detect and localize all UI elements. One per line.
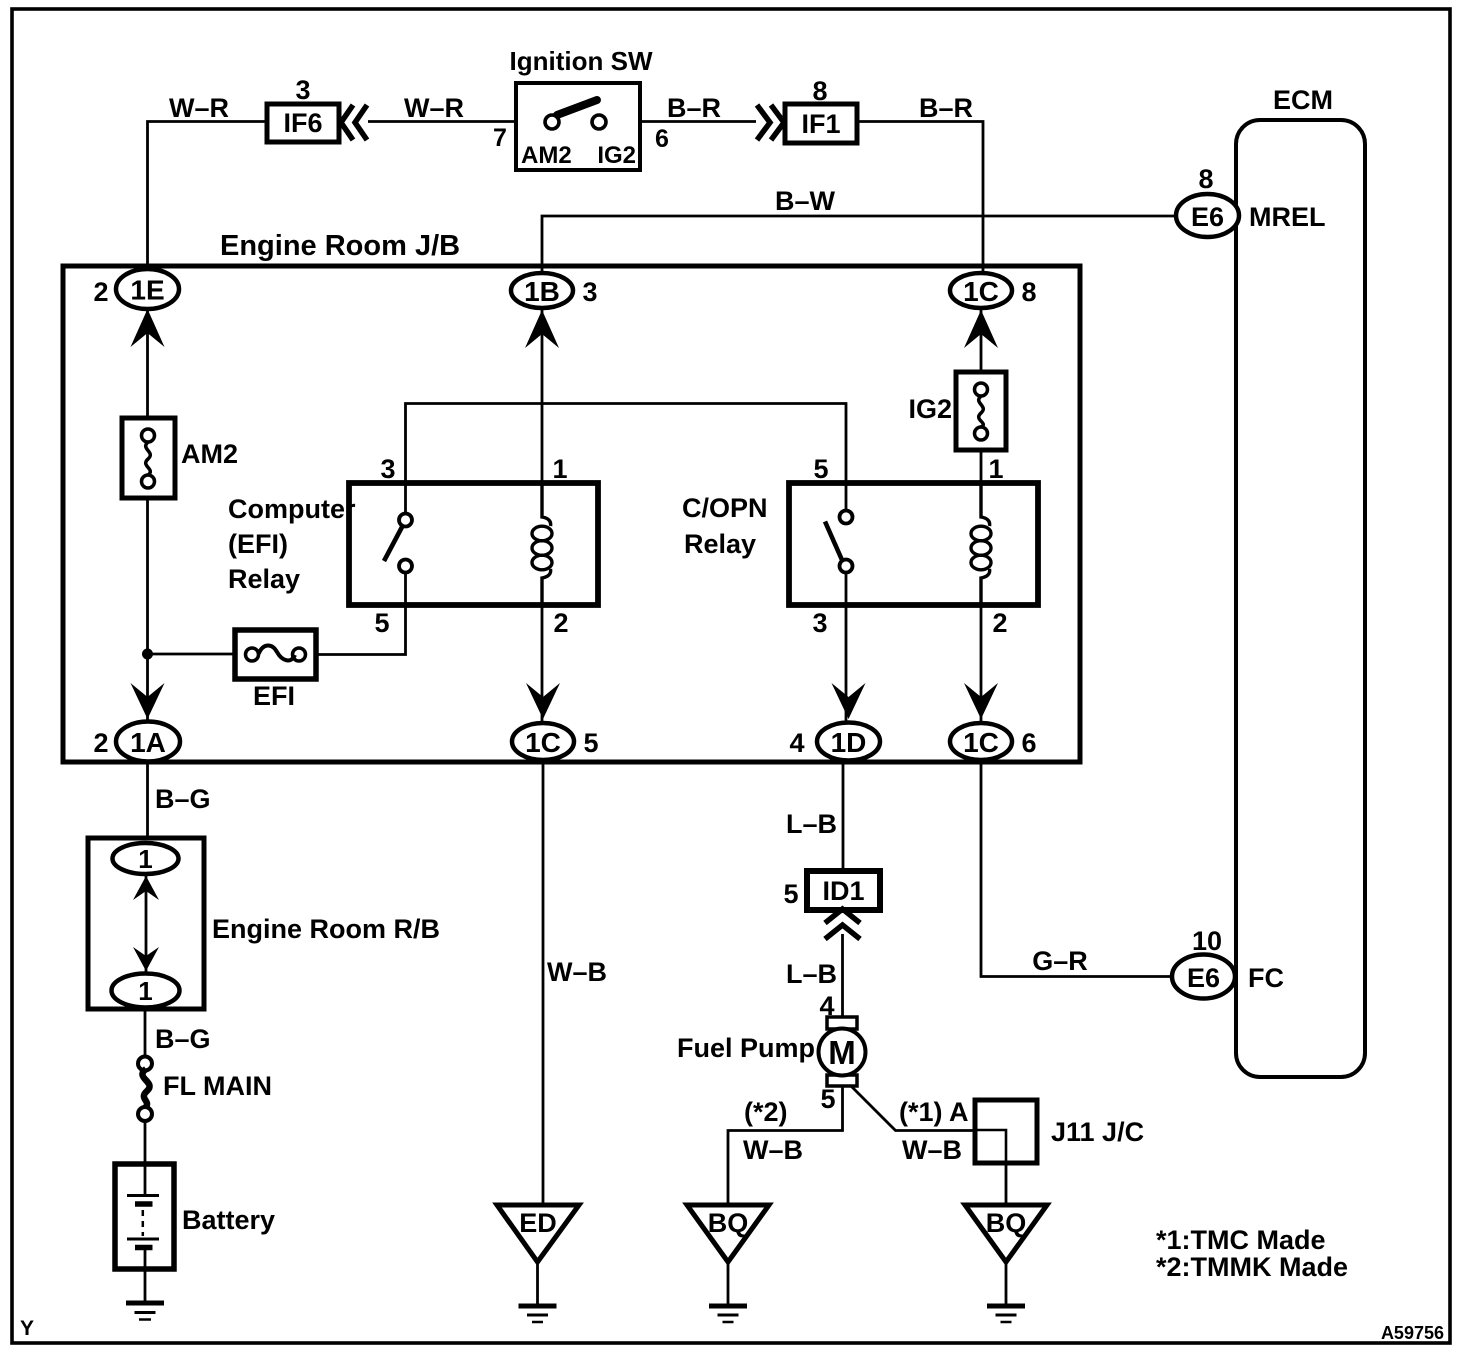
svg-text:Relay: Relay [228,564,300,594]
connector E6 FC [1172,955,1235,999]
svg-text:EFI: EFI [253,681,295,711]
svg-text:5: 5 [813,454,828,484]
relay Computer (EFI) box [349,483,598,605]
chevrons below ID1 [825,909,860,939]
wire fuel pump to left BQ branch [728,1083,843,1205]
chevrons at IF1 [757,105,784,140]
svg-text:8: 8 [1198,164,1213,194]
fuse AM2 [122,418,175,498]
svg-text:C/OPN: C/OPN [682,493,768,523]
svg-text:2: 2 [93,277,108,307]
connector 1 top R/B [113,843,179,874]
junction node [142,649,153,660]
svg-text:1D: 1D [831,727,867,758]
svg-text:W–R: W–R [169,93,229,123]
connector 1E [116,269,179,309]
svg-text:1A: 1A [130,727,166,758]
connector 1B [511,273,573,308]
wire B-W from 1B to E6 MREL [542,216,1176,276]
wire EFI fuse to relay pin 5 [316,605,406,655]
svg-text:5: 5 [783,879,798,909]
svg-text:8: 8 [1021,277,1036,307]
svg-text:3: 3 [812,608,827,638]
svg-text:W–B: W–B [902,1135,962,1165]
svg-text:3: 3 [582,277,597,307]
battery [115,1164,174,1269]
Engine Room J/B box [63,266,1080,762]
wire B-R from IF1 to 1C [857,122,983,275]
wire 1C to IG2 fuse [980,308,983,372]
svg-text:W–B: W–B [547,957,607,987]
svg-text:L–B: L–B [786,809,837,839]
svg-text:*1:TMC Made: *1:TMC Made [1156,1225,1326,1255]
arrow up at 1C [964,310,998,348]
wire C/OPN pin 3 to 1D [845,605,848,723]
svg-text:Fuel Pump: Fuel Pump [677,1033,815,1063]
svg-text:IF1: IF1 [801,109,840,139]
arrow up at 1B [525,310,559,348]
svg-text:1: 1 [138,976,152,1006]
svg-text:1C: 1C [963,727,999,758]
svg-text:B–G: B–G [155,784,211,814]
chevrons at IF6 [341,105,367,140]
wire W-R from IF6 to 1E [148,122,268,273]
svg-text:MREL: MREL [1249,202,1326,232]
svg-text:Y: Y [20,1317,34,1340]
arrow down at 1C5 [526,683,560,719]
wire L-B 1D to ID1 [842,762,845,872]
svg-text:ED: ED [519,1208,557,1238]
wire computer relay pin 2 to 1C [541,605,544,724]
ground bars BQ right [987,1306,1025,1322]
ground below battery [126,1303,164,1320]
svg-text:IG2: IG2 [908,394,952,424]
ignition switch SW box [516,83,640,170]
svg-text:1: 1 [988,454,1003,484]
junction connector J11 J/C [975,1100,1037,1163]
svg-text:FC: FC [1248,963,1284,993]
connector 1C bottom right [950,723,1012,760]
wire 1B down to computer relay coil pin 1 [541,308,544,483]
ground bars BQ left [709,1306,747,1322]
svg-text:7: 7 [493,124,507,152]
svg-text:1: 1 [138,844,152,874]
connector 1D [817,723,880,761]
arrow down at 1C6 [964,683,998,719]
wire C/OPN pin 2 to 1C [980,605,983,723]
arrow up R/B [133,876,159,900]
svg-text:1C: 1C [963,276,999,307]
svg-text:2: 2 [992,608,1007,638]
svg-text:W–B: W–B [743,1135,803,1165]
wire junction to EFI fuse [148,653,236,656]
wire W-B 1C to ED ground [542,762,545,1205]
ECM box [1236,85,1365,1077]
svg-text:B–W: B–W [775,186,836,216]
wire FL MAIN to battery [144,1121,147,1166]
svg-text:IG2: IG2 [597,142,636,169]
svg-text:Ignition SW: Ignition SW [510,46,653,76]
connector E6 MREL [1176,194,1239,237]
connector IF6 [267,104,339,142]
svg-text:3: 3 [380,454,395,484]
svg-text:5: 5 [374,608,389,638]
wire W-R from ignition SW to IF6 chevrons [368,120,516,123]
svg-text:G–R: G–R [1032,946,1088,976]
wire B-R ignition SW to IF1 chevrons [640,120,756,123]
relay C/OPN box [789,483,1038,605]
svg-text:2: 2 [93,728,108,758]
wire through ignition switch [516,121,640,124]
svg-text:L–B: L–B [786,959,837,989]
arrow down at 1D [832,683,866,719]
connector 1A [116,722,180,762]
wire ID1 chevrons to fuel pump [841,934,844,1018]
wire ED apex to ground [536,1262,539,1304]
label C/OPN Relay [682,493,768,559]
wire right BQ apex to ground [1005,1262,1008,1304]
wire relay pin 3 link to C/OPN pin 5 [406,404,847,484]
svg-text:A59756: A59756 [1381,1323,1444,1343]
fuse IG2 [956,372,1006,450]
ground BQ right [965,1205,1047,1262]
svg-text:W–R: W–R [404,93,464,123]
svg-text:10: 10 [1192,926,1222,956]
svg-text:4: 4 [789,728,804,758]
svg-text:J11 J/C: J11 J/C [1051,1117,1144,1147]
wire G-R 1C to E6 FC [981,762,1172,977]
svg-text:B–R: B–R [919,93,973,123]
svg-text:Engine Room J/B: Engine Room J/B [220,230,460,262]
svg-text:5: 5 [583,728,598,758]
wire inside J11 [975,1130,1006,1163]
connector 1C top [950,273,1012,308]
svg-text:Relay: Relay [684,529,756,559]
C/OPN relay switch [825,483,853,605]
svg-text:Computer: Computer [228,494,356,524]
svg-text:AM2: AM2 [181,439,238,469]
svg-text:ID1: ID1 [822,876,864,906]
svg-text:5: 5 [820,1084,835,1114]
svg-text:(*2): (*2) [744,1097,788,1127]
wire fuel pump diagonal to J11 [851,1086,1006,1205]
svg-text:3: 3 [295,75,310,105]
computer relay coil [532,483,552,605]
fusible link FL MAIN [138,1057,152,1122]
wire left BQ apex to ground [727,1262,730,1304]
wire battery internal top [144,1166,147,1195]
svg-text:ECM: ECM [1273,85,1333,115]
svg-text:1B: 1B [524,276,560,307]
svg-text:1E: 1E [130,275,164,306]
wire B-G R/B to FL MAIN [144,1008,147,1057]
svg-text:(EFI): (EFI) [228,529,288,559]
svg-text:1C: 1C [525,727,561,758]
computer relay switch [384,483,412,605]
svg-text:Battery: Battery [182,1205,275,1235]
svg-text:B–G: B–G [155,1024,211,1054]
wire IG2 fuse to C/OPN coil pin 1 [980,450,983,483]
svg-text:Engine Room R/B: Engine Room R/B [212,914,440,944]
svg-text:6: 6 [1021,728,1036,758]
ground BQ left [687,1205,769,1262]
Engine Room R/B box [88,838,204,1009]
arrow down R/B [133,947,159,971]
svg-text:E6: E6 [1191,202,1224,232]
svg-text:BQ: BQ [986,1208,1027,1238]
connector IF1 [785,104,857,143]
svg-text:6: 6 [655,125,669,153]
connector ID1 [807,871,880,910]
wire B-G 1A to Engine Room R/B [146,762,149,840]
fuse EFI [235,630,316,679]
svg-text:8: 8 [812,76,827,106]
svg-text:*2:TMMK Made: *2:TMMK Made [1156,1252,1348,1282]
wire battery to ground [144,1248,147,1302]
svg-text:1: 1 [552,454,567,484]
label Computer (EFI) Relay [228,494,356,594]
ground bars ED [519,1306,557,1322]
arrow up at 1E [131,309,165,347]
svg-text:BQ: BQ [708,1208,749,1238]
arrow down at 1A [131,683,165,719]
fuel pump motor [819,1017,866,1086]
C/OPN relay coil [971,483,991,605]
svg-text:M: M [828,1034,856,1071]
svg-text:E6: E6 [1187,963,1220,993]
svg-text:2: 2 [553,608,568,638]
svg-text:FL MAIN: FL MAIN [163,1071,272,1101]
wire 1E to AM2 fuse [146,308,149,418]
svg-text:IF6: IF6 [283,108,322,138]
connector 1 bottom R/B [112,974,180,1008]
ground ED [497,1205,579,1262]
svg-text:(*1) A: (*1) A [899,1097,969,1127]
svg-text:B–R: B–R [667,93,721,123]
wire inside R/B between connectors [145,874,148,975]
wire AM2 fuse to 1A via junction [146,498,149,723]
svg-text:AM2: AM2 [521,142,572,169]
connector 1C bottom left [512,723,574,760]
